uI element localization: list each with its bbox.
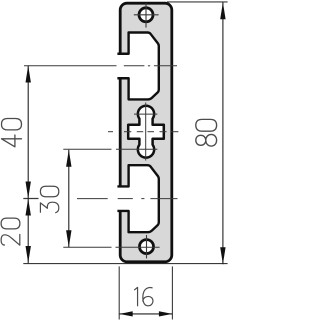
center cross screw-channel hole <box>128 106 164 158</box>
upper slot centerline <box>24 65 177 67</box>
label 30 <box>40 186 58 212</box>
upper T-slot white cavity <box>117 33 158 100</box>
label 20 <box>1 218 20 245</box>
bottom extension line left x=119 <box>118 266 120 319</box>
label 40 <box>2 119 22 147</box>
profile body 16x80 <box>120 3 172 262</box>
top mounting hole <box>139 8 153 22</box>
arrow down 80 bottom <box>220 247 225 264</box>
arrow down 20 bottom <box>26 246 31 263</box>
label 16 <box>135 287 153 305</box>
bottom extension line (under profile, full width) <box>23 263 227 265</box>
top-right extension line for 80 <box>167 1 228 3</box>
cross hole centerline vertical <box>145 103 147 161</box>
arrow left 16 <box>119 311 133 316</box>
arrow up 20 top <box>26 199 31 216</box>
arrow up 80 top <box>220 2 225 19</box>
cross top lobe crosshair <box>134 113 157 115</box>
cross bottom lobe crosshair / 30-dim top extension <box>63 148 157 150</box>
bottom extension line right x=172.4 <box>171 266 173 319</box>
bottom mounting hole <box>140 240 154 254</box>
lower T-slot white cavity <box>117 165 158 232</box>
lower slot centerline <box>77 198 178 200</box>
top hole crosshair vertical <box>145 3 147 28</box>
dimension line 30 <box>68 150 70 247</box>
dimension line 40/20 <box>27 66 29 264</box>
top hole crosshair horizontal <box>134 14 159 16</box>
bottom hole crosshair vertical <box>146 235 148 258</box>
arrow up 30 top <box>66 150 71 167</box>
arrow down 30 bottom <box>66 230 71 247</box>
dimension line 80 <box>222 2 224 264</box>
40-20 junction tick <box>23 198 38 200</box>
dimension line 16 <box>119 313 172 315</box>
cross hole centerline horizontal <box>108 131 178 133</box>
arrow up 40 top <box>26 66 31 83</box>
arrow down 40 bottom <box>26 182 31 199</box>
arrow right 16 <box>159 311 173 316</box>
bottom hole crosshair / 30-dim bottom extension <box>63 246 159 248</box>
lower T-slot outline <box>117 165 158 232</box>
label 80 <box>196 119 217 146</box>
upper T-slot outline <box>117 33 158 100</box>
